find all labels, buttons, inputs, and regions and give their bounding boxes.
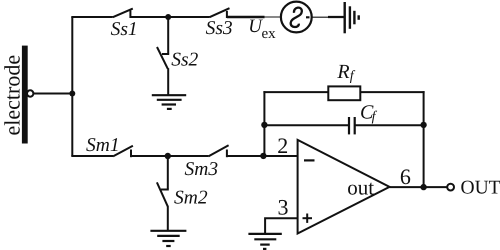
resistor Rf [328, 86, 360, 100]
switch Sm2 [157, 182, 169, 206]
label Cf [360, 102, 378, 125]
svg-text:OUT: OUT [461, 177, 500, 198]
electrode terminal [27, 90, 33, 96]
pin 2 minus sign [304, 159, 315, 161]
node B junction [165, 14, 171, 20]
terminal OUT [447, 184, 454, 191]
wire Sm3 to node D [227, 155, 264, 157]
wire Ss1 to node B [130, 16, 168, 18]
wire node C down [167, 156, 169, 189]
electrode [22, 46, 28, 144]
wire feedback left vertical [263, 91, 265, 156]
wire node B down [167, 17, 169, 54]
svg-text:electrode: electrode [0, 55, 25, 136]
ground Sm2 [150, 231, 186, 246]
svg-text:Ss3: Ss3 [206, 18, 233, 39]
svg-text:f: f [372, 109, 378, 124]
ground Ss2 [152, 95, 186, 109]
svg-text:ex: ex [262, 26, 277, 42]
wire electrode to node A [34, 93, 73, 95]
pin 3 plus sign [303, 214, 313, 223]
switch Sm1 [113, 146, 133, 157]
wire Sm1 to node C [131, 155, 168, 157]
switch Ss1 [113, 9, 133, 18]
label Uex [248, 16, 276, 42]
svg-text:Sm1: Sm1 [86, 135, 120, 156]
wire Ss2 to ground [167, 68, 169, 95]
svg-text:Sm2: Sm2 [174, 187, 208, 208]
wire Cf left [264, 124, 349, 126]
node C junction [165, 153, 171, 159]
capacitor Cf [349, 117, 355, 134]
node E junction [261, 122, 267, 128]
svg-text:3: 3 [278, 194, 289, 219]
svg-text:Ss2: Ss2 [171, 50, 198, 71]
svg-text:Sm3: Sm3 [185, 159, 219, 180]
node G junction [420, 184, 426, 190]
svg-text:2: 2 [277, 133, 288, 158]
switch Ss2 [157, 47, 169, 69]
source Uex [281, 2, 312, 33]
wire Rf right [360, 91, 424, 93]
svg-text:f: f [350, 69, 356, 84]
wire node D to op-amp [263, 155, 297, 157]
wire node B to Ss3 [168, 16, 209, 18]
node F junction [420, 122, 426, 128]
wire feedback right vertical [423, 91, 425, 187]
wire source to ground [306, 16, 344, 18]
wire Sm2 to ground [167, 206, 169, 231]
node A junction [69, 91, 75, 97]
switch Sm3 [208, 145, 228, 157]
node D junction [260, 153, 266, 159]
wire Ss3 to source [227, 16, 287, 19]
wire vertical rail [71, 17, 73, 156]
svg-text:Ss1: Ss1 [111, 19, 138, 40]
wire Cf right [355, 124, 424, 126]
wire node C to Sm3 [168, 155, 209, 157]
ground pin 3 [248, 234, 281, 249]
wire pin 3 to ground [265, 218, 298, 234]
wire top rail left [71, 16, 113, 18]
wire bottom rail left [71, 155, 113, 157]
wire Rf left [263, 91, 329, 93]
wire output [390, 186, 448, 188]
switch Ss3 [210, 8, 230, 18]
op-amp U1 [298, 140, 390, 234]
svg-text:6: 6 [400, 164, 411, 189]
svg-text:R: R [336, 61, 349, 83]
label Rf [336, 61, 355, 84]
svg-text:out: out [347, 176, 374, 200]
ground right [345, 2, 359, 33]
